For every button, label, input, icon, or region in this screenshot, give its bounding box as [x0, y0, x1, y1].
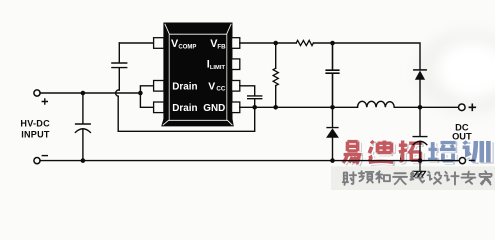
char she2 [428, 172, 442, 184]
wire GND switching rail [240, 106, 358, 108]
svg-text:LIMIT: LIMIT [210, 65, 226, 71]
watermark char yi (red) [343, 142, 363, 166]
watermark char pei (blue) [428, 142, 457, 162]
node R2 bottom [273, 105, 278, 110]
resistor R1 [296, 40, 313, 45]
wire hop over input rail [116, 90, 120, 96]
watermark char di (red) [369, 141, 395, 164]
pin Vfb (right) [232, 38, 240, 49]
svg-text:FB: FB [217, 43, 226, 50]
terminal + output [459, 104, 466, 111]
svg-text:OUT: OUT [452, 132, 472, 142]
capacitor C4 Vcc bypass [240, 86, 262, 108]
capacitor C1 input electrolytic [75, 93, 90, 161]
svg-text:HV-DC: HV-DC [20, 118, 50, 128]
wire bottom rail [40, 160, 459, 162]
watermark band [331, 166, 495, 190]
node C5 bottom [418, 158, 423, 163]
wire comp return to GND [118, 96, 255, 131]
watermark char xun (blue) [463, 141, 491, 164]
wire node A to D2 [333, 43, 421, 70]
char jia [480, 171, 492, 184]
svg-text:INPUT: INPUT [21, 129, 50, 139]
wire R1 to node A [313, 42, 332, 44]
resistor R2 vertical [275, 43, 277, 68]
diode D2 feedback [414, 69, 426, 71]
node D1 bottom [330, 158, 335, 163]
inductor L1 [358, 101, 395, 107]
pin GND (right) [232, 102, 240, 113]
watermark char tuo (red) [399, 141, 424, 163]
wire input + rail [40, 92, 140, 94]
char tian [393, 173, 407, 184]
pin Vcc (right) [232, 81, 240, 92]
capacitor C3 feedback [326, 43, 339, 107]
node input cap bottom [81, 158, 86, 163]
svg-text:Drain: Drain [172, 103, 197, 114]
label + (input) [42, 99, 47, 104]
wire Vfb pin to node [240, 42, 296, 44]
node feedback left [273, 41, 278, 46]
ground [414, 161, 426, 177]
char she [343, 172, 356, 185]
node D2 at out rail [418, 105, 423, 110]
svg-text:V: V [208, 82, 215, 93]
char pin [359, 171, 374, 182]
diode D1 freewheeling [327, 107, 338, 127]
wire drain bracket [140, 86, 155, 108]
pin Drain1 (left) [154, 81, 164, 92]
terminal - input [34, 158, 40, 164]
char he [376, 171, 390, 182]
label + (output) [469, 104, 475, 110]
background watermark ghost [417, 31, 495, 113]
node A [330, 41, 335, 46]
terminal + input [34, 90, 40, 96]
op IC U1 body [161, 23, 234, 127]
label HV-DC INPUT [20, 118, 50, 139]
terminal - output [459, 158, 465, 164]
svg-text:Drain: Drain [172, 82, 197, 93]
char ji [445, 172, 459, 185]
svg-text:GND: GND [203, 103, 225, 114]
wire Vcomp to pin [119, 42, 155, 44]
pin Vcomp (left) [154, 38, 240, 113]
svg-text:CC: CC [216, 86, 225, 93]
node input cap top [81, 91, 86, 96]
label - (output) [470, 159, 475, 161]
pin Ilimit (right) [232, 59, 240, 70]
capacitor C2 compensation [112, 43, 127, 90]
node drain junction [138, 91, 143, 96]
label VCOMP [171, 38, 226, 114]
svg-text:COMP: COMP [178, 44, 196, 50]
node comp return at GND rail [252, 105, 257, 110]
char xian [411, 171, 425, 182]
node C3 bottom [330, 105, 335, 110]
char zhuan [462, 172, 476, 184]
pin Drain2 (left) [154, 102, 164, 113]
label DC OUT [452, 123, 472, 142]
wire inductor to + out [394, 106, 459, 108]
watermark tagline gray chars [343, 171, 492, 185]
label - (input) [42, 155, 47, 157]
capacitor C5 output electrolytic [413, 107, 427, 160]
